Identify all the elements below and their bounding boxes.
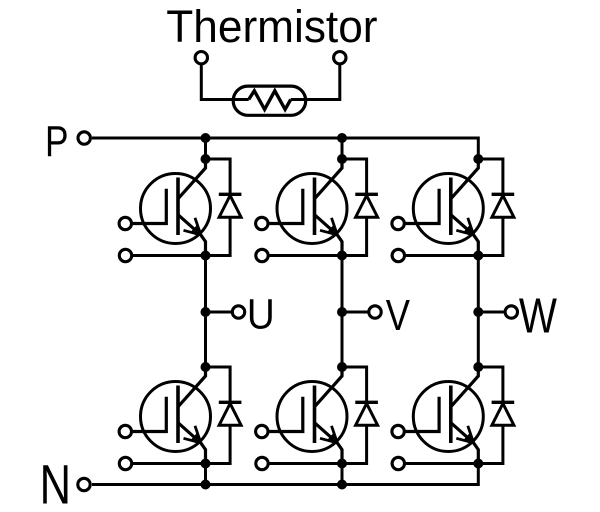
wire U lead — [206, 311, 233, 314]
wire Q5 emitter to N rail — [341, 464, 344, 485]
wire D2 bottom branch — [342, 217, 367, 255]
transistor Q3 emitter lead — [474, 235, 479, 256]
node Q2 emitter junction — [337, 251, 347, 261]
node Q6 collector junction — [473, 362, 483, 372]
wire Q3 aux emitter lead — [405, 254, 478, 257]
transistor Q5 bar — [313, 386, 317, 444]
transistor Q2 gate — [269, 189, 303, 224]
transistor Q3 emitter arrowhead — [464, 225, 474, 234]
node P rail junction leg V — [337, 133, 347, 143]
transistor Q4 gate — [133, 397, 167, 432]
transistor Q6 bar — [449, 386, 453, 444]
node N rail junction leg V — [337, 480, 347, 490]
wire Q1 aux emitter lead — [133, 254, 206, 257]
label N — [40, 453, 71, 512]
node Q1 emitter junction — [201, 251, 211, 261]
diode D4 cathode bar — [219, 401, 242, 404]
wire U node to Q4 — [204, 312, 207, 367]
node P rail junction leg U — [201, 133, 211, 143]
node Q4 emitter junction — [201, 459, 211, 469]
terminal P — [78, 132, 90, 144]
diode D3 cathode bar — [492, 193, 515, 196]
node Q6 emitter junction — [473, 459, 483, 469]
transistor Q3 gate — [405, 189, 439, 224]
thermistor label — [166, 1, 377, 53]
label P — [45, 117, 68, 166]
transistor Q4 collector lead — [178, 367, 206, 407]
terminal U — [232, 306, 244, 318]
diode D1 triangle — [219, 196, 241, 218]
diode D6 cathode bar — [492, 401, 515, 404]
transistor Q2 body circle — [277, 174, 347, 244]
diode D4 triangle — [219, 404, 241, 426]
wire Q6 emitter to N rail corner — [477, 464, 480, 466]
node Q3 collector junction — [473, 154, 483, 164]
terminal Q4 aux emitter — [119, 457, 131, 469]
transistor Q2 emitter arrow shaft — [315, 215, 338, 235]
node W junction — [473, 307, 483, 317]
transistor Q4 body circle — [141, 382, 211, 452]
wire P rail to Q2 — [341, 138, 344, 159]
transistor Q6 body circle — [413, 382, 483, 452]
transistor Q3 bar — [449, 178, 453, 236]
terminal Q1 gate — [119, 217, 131, 229]
wire D3 anode-top branch — [478, 159, 503, 194]
node Q5 emitter junction — [337, 459, 347, 469]
transistor Q1 collector lead — [178, 159, 206, 199]
transistor Q5 collector lead — [315, 367, 343, 407]
transistor Q6 emitter arrow shaft — [451, 423, 474, 443]
terminal W — [505, 306, 517, 318]
transistor Q2 bar — [313, 178, 317, 236]
node Q1 collector junction — [201, 154, 211, 164]
diode D2 triangle — [356, 196, 378, 218]
wire N rail — [92, 464, 478, 485]
wire P rail — [92, 138, 478, 159]
transistor Q6 emitter lead — [474, 443, 479, 464]
terminal Q6 aux emitter — [392, 457, 404, 469]
node U junction — [201, 307, 211, 317]
wire Q3 emitter to W node — [477, 256, 480, 313]
transistor Q5 gate — [269, 397, 303, 432]
wire Q4 aux emitter lead — [133, 462, 206, 465]
transistor Q4 emitter arrowhead — [191, 433, 201, 442]
wire W lead — [478, 311, 505, 314]
wire Q2 aux emitter lead — [269, 254, 342, 257]
wire P rail to Q1 — [204, 138, 207, 159]
transistor Q1 body circle — [141, 174, 211, 244]
wire Q1 emitter to U node — [204, 256, 207, 313]
wire D5 anode-top branch — [342, 367, 367, 402]
svg-text:W: W — [519, 287, 558, 343]
node N rail junction leg U — [201, 480, 211, 490]
thermistor terminal T1 — [195, 52, 207, 64]
transistor Q2 emitter arrow barbs — [320, 218, 337, 235]
wire D3 bottom branch — [478, 217, 503, 255]
node Q5 collector junction — [337, 362, 347, 372]
wire Q6 aux emitter lead — [405, 462, 478, 465]
diode D5 triangle — [356, 404, 378, 426]
transistor Q5 emitter lead — [337, 443, 342, 464]
terminal Q3 gate — [392, 217, 404, 229]
node Q2 collector junction — [337, 154, 347, 164]
diode D6 triangle — [492, 404, 514, 426]
wire D1 bottom branch — [206, 217, 231, 255]
transistor Q2 emitter arrowhead — [327, 225, 337, 234]
diode D5 cathode bar — [355, 401, 378, 404]
diode D3 triangle — [492, 196, 514, 218]
svg-text:V: V — [386, 291, 410, 340]
terminal Q5 gate — [256, 425, 268, 437]
svg-text:U: U — [247, 290, 275, 338]
transistor Q2 collector lead — [315, 159, 343, 199]
terminal Q2 aux emitter — [256, 249, 268, 261]
diode D1 cathode bar — [219, 193, 242, 196]
wire D5 bottom branch — [342, 425, 367, 463]
transistor Q1 emitter arrow shaft — [178, 215, 201, 235]
node V junction — [337, 307, 347, 317]
resistor zigzag RT1 — [249, 91, 291, 110]
node Q4 collector junction — [201, 362, 211, 372]
wire Q4 emitter to N rail — [204, 464, 207, 485]
transistor Q5 emitter arrow barbs — [320, 426, 337, 443]
wire D4 anode-top branch — [206, 367, 231, 402]
wire W node to Q6 — [477, 312, 480, 367]
transistor Q6 gate — [405, 397, 439, 432]
svg-text:N: N — [40, 453, 71, 512]
wire V node to Q5 — [341, 312, 344, 367]
transistor Q5 emitter arrowhead — [327, 433, 337, 442]
terminal Q4 gate — [119, 425, 131, 437]
wire D6 bottom branch — [478, 425, 503, 463]
node Q3 emitter junction — [473, 251, 483, 261]
transistor Q6 emitter arrowhead — [464, 433, 474, 442]
transistor Q1 gate — [133, 189, 167, 224]
wire D4 bottom branch — [206, 425, 231, 463]
svg-text:P: P — [45, 117, 68, 166]
transistor Q5 body circle — [277, 382, 347, 452]
transistor Q1 bar — [176, 178, 180, 236]
transistor Q2 emitter lead — [337, 235, 342, 256]
transistor Q1 emitter arrowhead — [191, 225, 201, 234]
transistor Q4 emitter arrow shaft — [178, 423, 201, 443]
terminal V — [369, 306, 381, 318]
wire thermistor right lead — [291, 64, 340, 100]
transistor Q4 emitter arrow barbs — [184, 426, 201, 443]
wire thermistor left lead — [201, 64, 248, 100]
transistor Q3 collector lead — [451, 159, 479, 199]
wire D2 anode-top branch — [342, 159, 367, 194]
terminal Q5 aux emitter — [256, 457, 268, 469]
transistor Q4 bar — [176, 386, 180, 444]
thermistor terminal T2 — [334, 52, 346, 64]
terminal Q6 gate — [392, 425, 404, 437]
transistor Q4 emitter lead — [201, 443, 206, 464]
wire V lead — [342, 311, 369, 314]
terminal N — [78, 478, 90, 490]
transistor Q3 emitter arrow shaft — [451, 215, 474, 235]
wire D6 anode-top branch — [478, 367, 503, 402]
transistor Q6 collector lead — [451, 367, 479, 407]
terminal Q1 aux emitter — [119, 249, 131, 261]
transistor Q1 emitter lead — [201, 235, 206, 256]
transistor Q3 body circle — [413, 174, 483, 244]
label V — [386, 291, 410, 340]
transistor Q3 emitter arrow barbs — [456, 218, 473, 235]
thermistor body RT1 — [233, 86, 306, 115]
wire Q2 emitter to V node — [341, 256, 344, 313]
svg-text:Thermistor: Thermistor — [166, 1, 377, 53]
label W — [519, 287, 558, 343]
wire Q5 aux emitter lead — [269, 462, 342, 465]
transistor Q5 emitter arrow shaft — [315, 423, 338, 443]
wire D1 anode-top branch — [206, 159, 231, 194]
label U — [247, 290, 275, 338]
terminal Q2 gate — [256, 217, 268, 229]
transistor Q6 emitter arrow barbs — [456, 426, 473, 443]
diode D2 cathode bar — [355, 193, 378, 196]
terminal Q3 aux emitter — [392, 249, 404, 261]
transistor Q1 emitter arrow barbs — [184, 218, 201, 235]
